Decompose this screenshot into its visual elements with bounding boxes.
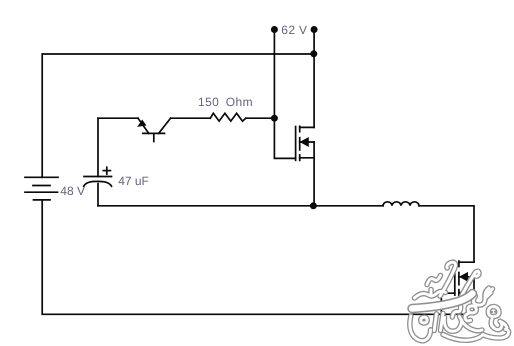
wire resistor to gate node [246,117,275,119]
capacitor C1 47 uF [84,118,112,206]
battery B1 [25,177,58,200]
node 62V right dot [311,26,318,33]
resistor R1 150 Ohm [210,113,246,121]
watermark signature [410,262,509,341]
node 62V left dot [271,26,278,33]
svg-text:150 Ohm: 150 Ohm [198,95,253,109]
wire collector to resistor [171,117,211,119]
wire 62V left vertical [273,30,275,119]
transistor Q1 [138,118,171,141]
junction dot top rail [310,50,317,57]
wire gate drop [274,118,295,158]
wire 62V right vertical [313,30,315,128]
wire battery bottom to ground rail [42,200,474,314]
wire top rail [42,54,314,177]
svg-text:48 V: 48 V [60,184,85,198]
svg-text:62 V: 62 V [281,23,307,37]
inductor L1 [383,202,419,206]
wire emitter node [98,117,138,119]
wire inductor to output [419,206,474,262]
mosfet Q3 [455,261,474,314]
mosfet Q2 [296,126,315,206]
watermark boat swoosh [412,294,473,309]
junction dot switch node [310,202,317,209]
wire mosfet Q3 gate to ground [441,293,455,314]
junction dot gate node [271,115,278,122]
wire switch node rail [98,205,383,207]
svg-text:47 uF: 47 uF [118,174,149,188]
